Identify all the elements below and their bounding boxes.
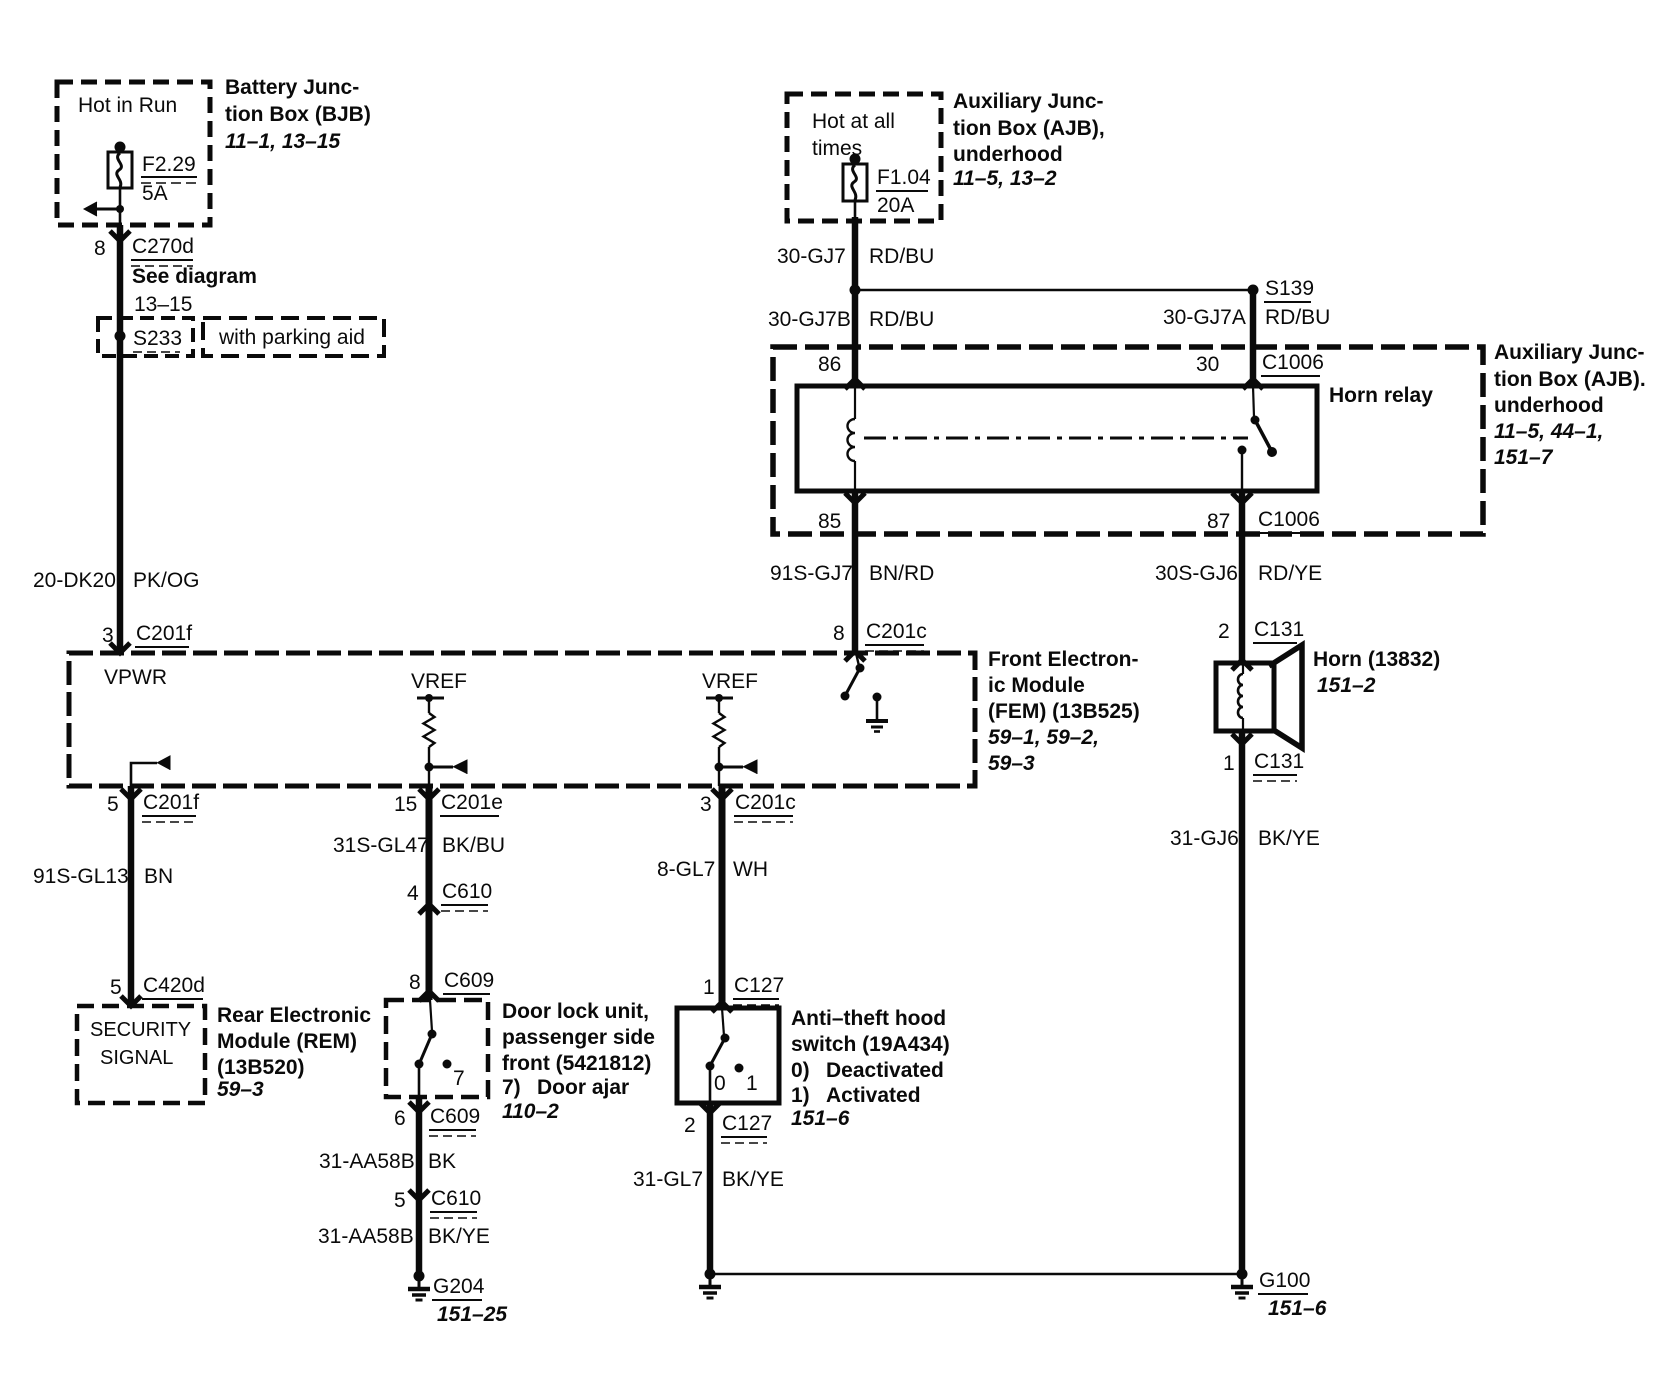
svg-text:RD/YE: RD/YE <box>1258 562 1322 585</box>
arrowhead at pin 5 C610 <box>409 1190 429 1200</box>
svg-text:C610: C610 <box>442 880 492 903</box>
wire fuse F1.04 to relay pin 86 <box>854 201 857 219</box>
svg-text:VREF: VREF <box>702 670 758 693</box>
ground G204 <box>408 1271 430 1301</box>
relay switch <box>1251 386 1278 457</box>
svg-text:11–1, 13–15: 11–1, 13–15 <box>225 130 341 153</box>
svg-text:C420d: C420d <box>143 974 205 997</box>
wire 31-GJ6 horn to ground G100 <box>1239 731 1246 1274</box>
fuse F2.29 5A <box>108 142 132 189</box>
horn (13832) <box>1216 645 1302 748</box>
svg-text:(13B520): (13B520) <box>217 1056 305 1079</box>
svg-text:BN: BN <box>144 865 173 888</box>
svg-text:8: 8 <box>409 971 421 994</box>
svg-text:switch (19A434): switch (19A434) <box>791 1033 950 1056</box>
svg-text:See diagram: See diagram <box>132 265 257 288</box>
arrowhead at pin 2 <box>700 1103 720 1113</box>
svg-text:Module (REM): Module (REM) <box>217 1030 357 1053</box>
connector C609 arrowhead <box>419 991 439 1001</box>
Door lock unit dashed box <box>386 1000 488 1097</box>
node junction 1 with sense arrow <box>425 760 468 774</box>
wire arrow stub to left <box>84 202 124 216</box>
svg-text:C201c: C201c <box>735 791 796 814</box>
resistor VREF 1 <box>424 698 435 786</box>
svg-text:7: 7 <box>453 1067 465 1090</box>
wire FEM pin 5 to REM <box>128 786 135 1006</box>
FEM horn switch <box>841 653 865 701</box>
arrowhead out of FEM pin 8 <box>845 651 865 661</box>
svg-text:1: 1 <box>703 976 715 999</box>
VREF tick 2 <box>706 694 733 702</box>
svg-text:passenger side: passenger side <box>502 1026 655 1049</box>
svg-text:Battery Junc-: Battery Junc- <box>225 76 359 99</box>
arrowhead into relay pin 30 <box>1243 379 1263 389</box>
svg-text:C1006: C1006 <box>1258 508 1320 531</box>
svg-text:30S-GJ6: 30S-GJ6 <box>1155 562 1238 585</box>
wire 91S-GJ7 relay pin 85 to FEM pin 8 <box>852 491 859 653</box>
svg-text:tion Box (AJB),: tion Box (AJB), <box>953 117 1105 140</box>
arrowhead into horn pin 2 <box>1232 660 1252 670</box>
svg-text:S233: S233 <box>133 327 182 350</box>
svg-text:0: 0 <box>714 1072 726 1095</box>
svg-text:0): 0) <box>791 1059 810 1082</box>
splice S233 dot <box>115 331 126 342</box>
wire 30S-GJ6 relay pin 87 to horn <box>1239 491 1246 663</box>
svg-text:F2.29: F2.29 <box>142 153 196 176</box>
door ajar switch <box>415 1000 437 1097</box>
svg-text:5: 5 <box>110 976 122 999</box>
connector C610 arrowhead <box>419 904 439 914</box>
arrowhead out of relay pin 85 <box>845 493 865 503</box>
svg-text:30-GJ7A: 30-GJ7A <box>1163 306 1246 329</box>
svg-text:(FEM) (13B525): (FEM) (13B525) <box>988 700 1140 723</box>
svg-text:ic Module: ic Module <box>988 674 1085 697</box>
svg-text:11–5, 44–1,: 11–5, 44–1, <box>1494 420 1603 443</box>
svg-text:151–6: 151–6 <box>1268 1297 1327 1320</box>
svg-text:C609: C609 <box>444 969 494 992</box>
svg-text:RD/BU: RD/BU <box>869 308 934 331</box>
svg-text:151–2: 151–2 <box>1317 674 1376 697</box>
svg-text:PK/OG: PK/OG <box>133 569 200 592</box>
FEM internal ground <box>866 693 888 732</box>
splice S139 dot <box>1248 285 1259 296</box>
ground (middle, to G100 bus) <box>699 1269 721 1299</box>
svg-text:with parking aid: with parking aid <box>218 326 365 349</box>
node junction 2 with sense arrow <box>715 760 758 774</box>
svg-text:30-GJ7B: 30-GJ7B <box>768 308 851 331</box>
svg-text:SECURITY: SECURITY <box>90 1019 191 1041</box>
wire door lock unit to ground G204 <box>416 1097 423 1274</box>
svg-text:RD/BU: RD/BU <box>869 245 934 268</box>
svg-text:Horn relay: Horn relay <box>1329 384 1433 407</box>
svg-text:front (5421812): front (5421812) <box>502 1052 651 1075</box>
horn relay box <box>797 386 1317 491</box>
svg-text:C270d: C270d <box>132 235 194 258</box>
svg-text:Horn (13832): Horn (13832) <box>1313 648 1440 671</box>
wire FEM pin 3 C201c to hood switch <box>719 786 726 1008</box>
svg-text:2: 2 <box>1218 620 1230 643</box>
option box: with parking aid <box>203 318 384 356</box>
svg-text:BK/YE: BK/YE <box>1258 827 1320 850</box>
svg-text:31-GL7: 31-GL7 <box>633 1168 703 1191</box>
svg-text:Rear Electronic: Rear Electronic <box>217 1004 371 1027</box>
arrowhead at pin 15 <box>419 789 439 799</box>
Auxiliary Junction Box dashed box (fuse) <box>787 94 941 221</box>
svg-text:C610: C610 <box>431 1187 481 1210</box>
svg-text:5: 5 <box>107 793 119 816</box>
arrowhead at pin 3 <box>712 789 732 799</box>
svg-text:8: 8 <box>833 622 845 645</box>
svg-text:15: 15 <box>394 793 417 816</box>
arrowhead out of relay pin 87 <box>1232 493 1252 503</box>
arrowhead into relay pin 86 <box>845 379 865 389</box>
svg-text:59–3: 59–3 <box>217 1078 264 1101</box>
svg-text:30: 30 <box>1196 353 1219 376</box>
svg-text:C1006: C1006 <box>1262 351 1324 374</box>
wire fuse output lead <box>119 188 122 225</box>
svg-text:tion Box (BJB): tion Box (BJB) <box>225 103 371 126</box>
svg-text:110–2: 110–2 <box>502 1100 559 1123</box>
svg-text:VREF: VREF <box>411 670 467 693</box>
svg-text:BK/YE: BK/YE <box>428 1225 490 1248</box>
svg-text:2: 2 <box>684 1114 696 1137</box>
svg-text:C609: C609 <box>430 1105 480 1128</box>
svg-text:C201c: C201c <box>866 620 927 643</box>
svg-text:151–7: 151–7 <box>1494 446 1554 469</box>
svg-text:Door ajar: Door ajar <box>537 1076 629 1099</box>
svg-text:BK/YE: BK/YE <box>722 1168 784 1191</box>
Battery Junction Box (BJB) dashed box <box>57 82 210 225</box>
VREF tick 1 <box>417 694 444 702</box>
svg-text:C131: C131 <box>1254 618 1304 641</box>
svg-text:85: 85 <box>818 510 841 533</box>
svg-text:20A: 20A <box>877 194 914 217</box>
svg-text:G204: G204 <box>433 1275 485 1298</box>
svg-text:Hot in Run: Hot in Run <box>78 94 177 117</box>
wire hood switch pin 2 to ground <box>707 1103 714 1274</box>
svg-text:91S-GL13: 91S-GL13 <box>33 865 129 888</box>
svg-text:tion Box (AJB).: tion Box (AJB). <box>1494 368 1646 391</box>
svg-text:G100: G100 <box>1259 1269 1310 1292</box>
svg-text:Door lock unit,: Door lock unit, <box>502 1000 649 1023</box>
svg-text:31S-GL47: 31S-GL47 <box>333 834 429 857</box>
svg-text:Auxiliary Junc-: Auxiliary Junc- <box>953 90 1104 113</box>
relay control dash-dot line <box>864 437 1248 440</box>
relay pin 87 lead <box>1238 446 1247 492</box>
svg-text:59–3: 59–3 <box>988 752 1035 775</box>
svg-text:151–25: 151–25 <box>437 1303 507 1326</box>
Anti-theft hood switch box <box>677 1008 779 1103</box>
svg-text:BN/RD: BN/RD <box>869 562 934 585</box>
svg-text:86: 86 <box>818 353 841 376</box>
Rear Electronic Module (REM) dashed box <box>77 1006 205 1103</box>
arrowhead at hood switch pin 1 <box>712 1002 732 1012</box>
svg-text:11–5, 13–2: 11–5, 13–2 <box>953 167 1057 190</box>
splice junction dot <box>850 285 861 296</box>
svg-text:Anti–theft hood: Anti–theft hood <box>791 1007 946 1030</box>
svg-text:59–1, 59–2,: 59–1, 59–2, <box>988 726 1099 749</box>
svg-text:31-GJ6: 31-GJ6 <box>1170 827 1239 850</box>
svg-text:7): 7) <box>502 1076 521 1099</box>
arrowhead into REM <box>121 996 141 1006</box>
svg-text:1): 1) <box>791 1084 810 1107</box>
svg-text:31-AA58B: 31-AA58B <box>318 1225 414 1248</box>
svg-text:8: 8 <box>94 237 106 260</box>
ground bus wire to G100 <box>710 1273 1243 1276</box>
fuse F1.04 20A <box>843 154 867 202</box>
switch position 7 dot and label <box>443 1060 452 1069</box>
svg-text:8-GL7: 8-GL7 <box>657 858 715 881</box>
svg-text:C127: C127 <box>722 1112 772 1135</box>
svg-text:Hot at all: Hot at all <box>812 110 895 133</box>
relay coil <box>848 386 855 491</box>
arrowhead at pin 8 <box>110 231 130 241</box>
svg-text:5: 5 <box>394 1189 406 1212</box>
svg-text:F1.04: F1.04 <box>877 166 931 189</box>
svg-text:Deactivated: Deactivated <box>826 1059 944 1082</box>
svg-text:underhood: underhood <box>1494 394 1604 417</box>
wire FEM pin 15 to door lock unit <box>426 786 433 1000</box>
svg-text:87: 87 <box>1207 510 1230 533</box>
resistor VREF 2 <box>714 698 725 786</box>
ground G100 <box>1231 1269 1253 1299</box>
svg-text:20-DK20: 20-DK20 <box>33 569 116 592</box>
svg-text:VPWR: VPWR <box>104 666 167 689</box>
svg-text:C201e: C201e <box>441 791 503 814</box>
svg-text:4: 4 <box>407 882 419 905</box>
svg-text:RD/BU: RD/BU <box>1265 306 1330 329</box>
svg-text:WH: WH <box>733 858 768 881</box>
FEM internal branch to pin 5 with arrow <box>131 756 170 786</box>
svg-text:31-AA58B: 31-AA58B <box>319 1150 415 1173</box>
Auxiliary Junction Box (AJB) underhood dashed box <box>773 347 1483 534</box>
svg-text:30-GJ7: 30-GJ7 <box>777 245 846 268</box>
splice S233 box <box>98 318 193 356</box>
arrowhead at pin 5 <box>121 789 141 799</box>
svg-text:C127: C127 <box>734 974 784 997</box>
svg-text:C131: C131 <box>1254 750 1304 773</box>
svg-text:6: 6 <box>394 1107 406 1130</box>
svg-text:91S-GJ7: 91S-GJ7 <box>770 562 853 585</box>
wire BJB pin 8 down to FEM pin 3 <box>117 225 124 653</box>
Front Electronic Module (FEM) dashed box <box>69 653 975 786</box>
svg-text:SIGNAL: SIGNAL <box>100 1047 173 1069</box>
svg-text:C201f: C201f <box>136 622 192 645</box>
splice S139 wire <box>855 289 1253 291</box>
svg-text:1: 1 <box>746 1072 758 1095</box>
svg-text:151–6: 151–6 <box>791 1107 850 1130</box>
svg-text:3: 3 <box>700 793 712 816</box>
arrowhead into FEM pin 3 <box>110 643 130 653</box>
wire S139 down to relay pin 30 <box>1250 290 1257 386</box>
svg-text:underhood: underhood <box>953 143 1063 166</box>
svg-text:1: 1 <box>1223 752 1235 775</box>
svg-text:C201f: C201f <box>143 791 199 814</box>
svg-text:Front Electron-: Front Electron- <box>988 648 1139 671</box>
svg-text:S139: S139 <box>1265 277 1314 300</box>
svg-text:BK/BU: BK/BU <box>442 834 505 857</box>
svg-text:Auxiliary Junc-: Auxiliary Junc- <box>1494 341 1645 364</box>
svg-text:13–15: 13–15 <box>134 293 192 316</box>
arrowhead at pin 6 <box>409 1102 429 1112</box>
svg-text:5A: 5A <box>142 182 168 205</box>
arrowhead out of horn pin 1 <box>1232 734 1252 744</box>
svg-text:BK: BK <box>428 1150 456 1173</box>
hood switch blade <box>706 1008 730 1103</box>
svg-text:Activated: Activated <box>826 1084 921 1107</box>
